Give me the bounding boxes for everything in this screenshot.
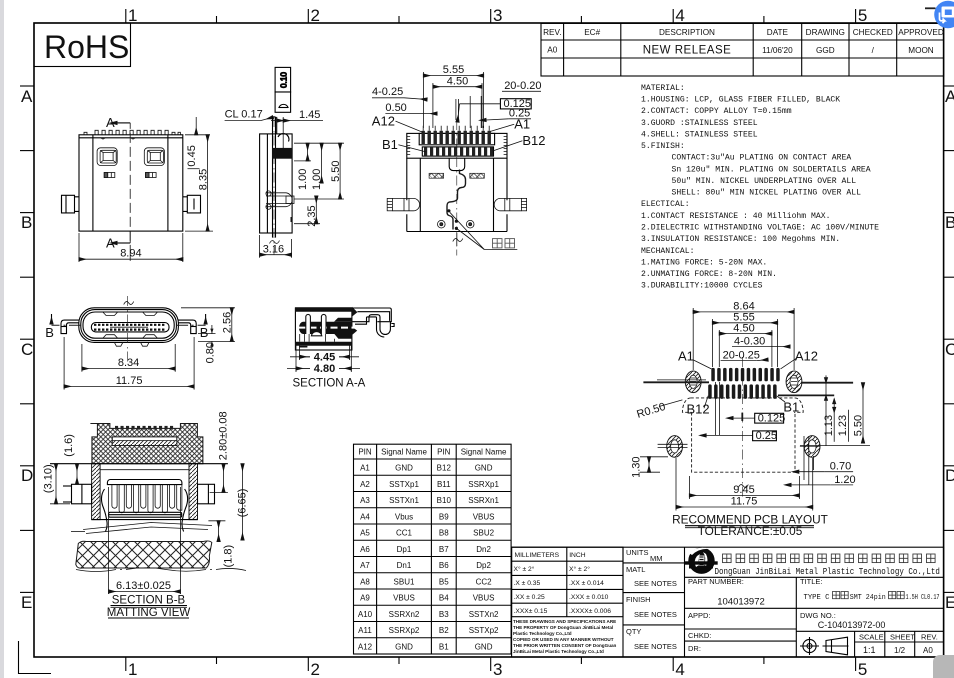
svg-text:3.DURABILITY:10000 CYCLES: 3.DURABILITY:10000 CYCLES: [641, 282, 763, 291]
svg-text:SBU2: SBU2: [473, 529, 494, 538]
left gray strip: [0, 0, 4, 678]
svg-text:3.16: 3.16: [263, 244, 284, 256]
svg-text:A6: A6: [360, 545, 370, 554]
dim 3.16: [260, 235, 292, 258]
svg-text:NEW RELEASE: NEW RELEASE: [643, 45, 732, 57]
top comb teeth row: [115, 426, 173, 430]
note 0.50: [385, 102, 437, 114]
svg-text:CC1: CC1: [396, 529, 413, 538]
svg-text:A5: A5: [360, 529, 370, 538]
svg-text:CL 0.17: CL 0.17: [225, 109, 263, 121]
rear view body outline: [79, 135, 183, 231]
svg-text:2.CONTACT: COPPY ALLOY T=0.15m: 2.CONTACT: COPPY ALLOY T=0.15mm: [641, 107, 792, 116]
svg-text:SBU1: SBU1: [394, 577, 415, 586]
dim 8.34: [82, 344, 175, 372]
zone numbers bottom: [128, 660, 867, 678]
svg-text:MECHANICAL:: MECHANICAL:: [641, 247, 694, 256]
svg-text:A10: A10: [358, 610, 373, 619]
svg-text:MM: MM: [650, 554, 663, 563]
svg-text:Dp1: Dp1: [397, 545, 412, 554]
svg-text:B1: B1: [783, 399, 799, 414]
svg-text:2.56: 2.56: [221, 312, 233, 333]
svg-text:TOLERANCE:±0.05: TOLERANCE:±0.05: [698, 524, 803, 538]
svg-text:MILLIMETERS: MILLIMETERS: [515, 552, 560, 559]
svg-text:1.HOUSING: LCP, GLASS FIBER FI: 1.HOUSING: LCP, GLASS FIBER FILLED, BLAC…: [641, 96, 840, 105]
dim 2.56: [181, 308, 235, 342]
svg-text:CHKD:: CHKD:: [688, 631, 711, 640]
svg-text:CC2: CC2: [476, 577, 493, 586]
svg-text:A7: A7: [360, 561, 370, 570]
pin table: [354, 444, 512, 654]
svg-text:DATE: DATE: [767, 28, 789, 37]
side view tolerance frame 0.10: [275, 67, 291, 112]
svg-text:4.45: 4.45: [314, 351, 335, 363]
svg-text:1.20: 1.20: [834, 474, 855, 486]
svg-text:.XXX ± 0.010: .XXX ± 0.010: [569, 594, 609, 601]
svg-text:1: 1: [128, 660, 137, 678]
svg-text:CHECKED: CHECKED: [853, 28, 893, 37]
svg-text:1.13: 1.13: [823, 415, 835, 436]
left outer tab: [63, 484, 92, 504]
dim 2.80+-0.08: [210, 411, 230, 492]
svg-text:PART NUMBER:: PART NUMBER:: [688, 577, 744, 586]
svg-text:DRAWING: DRAWING: [806, 28, 845, 37]
svg-text:.X ± 0.35: .X ± 0.35: [514, 580, 541, 587]
svg-text:B: B: [200, 325, 209, 340]
MATTING VIEW label: [107, 607, 191, 619]
svg-text:DR:: DR:: [688, 644, 701, 653]
svg-text:9.45: 9.45: [733, 484, 754, 496]
company name CJK (boxes): [723, 554, 936, 563]
svg-text:4-0.25: 4-0.25: [372, 86, 403, 98]
svg-text:5.50: 5.50: [853, 415, 865, 436]
labels B12 B1: [687, 399, 800, 416]
svg-text:4: 4: [675, 6, 684, 25]
lower oval pads: [667, 436, 820, 458]
svg-text:1.23: 1.23: [837, 415, 849, 436]
pin slots: [306, 314, 311, 334]
svg-text:SCALE: SCALE: [859, 633, 884, 642]
centerline symbol: [453, 239, 463, 242]
svg-text:THESE DRAWINGS AND SPECIFICATI: THESE DRAWINGS AND SPECIFICATIONS ARE: [513, 619, 616, 624]
svg-text:(6.65): (6.65): [237, 489, 249, 518]
svg-text:8.34: 8.34: [118, 357, 139, 369]
svg-text:GND: GND: [395, 464, 413, 473]
zone ticks bottom: [126, 657, 856, 671]
svg-text:QTY: QTY: [626, 627, 641, 636]
svg-text:2: 2: [311, 660, 320, 678]
svg-text:.XXX± 0.15: .XXX± 0.15: [514, 608, 548, 615]
gray corner square bottom-right: [933, 655, 954, 678]
svg-text:2.35: 2.35: [306, 205, 318, 226]
svg-text:8.35: 8.35: [198, 169, 210, 190]
svg-text:(1.6): (1.6): [63, 434, 75, 457]
dim (6.65): [237, 464, 249, 540]
heavy reference lines: [643, 382, 853, 395]
svg-text:A0: A0: [547, 46, 557, 55]
svg-text:2.UNMATING FORCE: 8-20N MIN.: 2.UNMATING FORCE: 8-20N MIN.: [641, 270, 777, 279]
svg-text:1: 1: [128, 6, 137, 25]
svg-text:SSTXn1: SSTXn1: [389, 496, 419, 505]
svg-text:50u" MIN. NICKEL UNDERPLATING: 50u" MIN. NICKEL UNDERPLATING OVER ALL: [672, 177, 857, 186]
svg-text:4.SHELL: STAINLESS STEEL: 4.SHELL: STAINLESS STEEL: [641, 130, 758, 139]
centerline symbol bottom: [270, 241, 280, 244]
svg-text:MATL: MATL: [626, 565, 645, 574]
svg-text:1:1: 1:1: [863, 645, 876, 655]
bottom hatched slab: [76, 541, 212, 568]
bottom-left corner trim mark: [19, 641, 52, 674]
label A12: [372, 114, 424, 133]
solder point label 焊点: [450, 212, 518, 249]
rear view small hatched slots: [104, 173, 156, 178]
svg-text:A12: A12: [358, 642, 373, 651]
top view left tab: [387, 198, 419, 210]
svg-text:PIN: PIN: [358, 448, 372, 457]
svg-text:0.80: 0.80: [205, 342, 217, 363]
svg-text:B12: B12: [437, 464, 452, 473]
svg-text:A11: A11: [358, 626, 372, 635]
svg-text:MATTING VIEW: MATTING VIEW: [107, 607, 191, 619]
dim 2.35: [294, 196, 320, 227]
third angle projection symbol: [800, 637, 849, 655]
svg-text:A0: A0: [923, 646, 933, 655]
side black flange: [272, 148, 292, 159]
svg-text:2: 2: [311, 6, 320, 25]
left leg: [61, 320, 79, 334]
top view body below flange: [407, 158, 507, 231]
TITLE content: [804, 592, 940, 603]
svg-text:B9: B9: [439, 512, 449, 521]
R0.50: [635, 400, 682, 421]
svg-text:SSRXn1: SSRXn1: [468, 496, 499, 505]
blue translate icon top-right: [934, 1, 954, 29]
svg-text:A12: A12: [372, 114, 395, 129]
svg-text:PIN: PIN: [437, 448, 451, 457]
svg-text:1/2: 1/2: [894, 646, 906, 655]
svg-text:VBUS: VBUS: [473, 512, 495, 521]
svg-text:D: D: [945, 466, 954, 485]
svg-text:X° ± 2°: X° ± 2°: [569, 565, 590, 573]
pcb thin band wavy: [71, 523, 212, 534]
svg-text:DongGuan JinBiLai Metal Plasti: DongGuan JinBiLai Metal Plastic Technolo…: [715, 567, 940, 577]
dim 4.45: [290, 343, 359, 363]
svg-text:C: C: [21, 340, 33, 359]
svg-text:REV.: REV.: [543, 28, 561, 37]
section A arrow bottom: [106, 231, 130, 250]
svg-text:SSTXp1: SSTXp1: [389, 480, 419, 489]
right leg: [178, 320, 196, 334]
dim 5.55: [712, 312, 777, 368]
note 4-0.30: [732, 336, 790, 348]
dims 1.13 1.23 5.50 right: [800, 375, 870, 445]
svg-text:3: 3: [493, 6, 502, 25]
label A1: [491, 117, 531, 132]
svg-text:5: 5: [858, 6, 867, 25]
svg-text:SSTXp2: SSTXp2: [469, 626, 499, 635]
centerline vertical: [741, 357, 743, 497]
svg-text:11/06'20: 11/06'20: [762, 46, 793, 55]
svg-text:5: 5: [858, 660, 867, 678]
svg-text:B1: B1: [439, 642, 449, 651]
svg-text:.XXXX± 0.006: .XXXX± 0.006: [569, 608, 611, 615]
dim 4.50 (top view): [433, 76, 482, 129]
svg-text:SHELL: 80u" MIN NICKEL PLATING: SHELL: 80u" MIN NICKEL PLATING OVER ALL: [672, 189, 862, 198]
zone letters right: [944, 86, 954, 592]
white semicircle: [311, 332, 321, 336]
svg-text:A2: A2: [360, 480, 370, 489]
svg-text:Dn1: Dn1: [397, 561, 412, 570]
pin row B (12 pins): [424, 148, 493, 157]
svg-text:B12: B12: [687, 401, 710, 416]
svg-text:B: B: [945, 213, 954, 232]
svg-text:2.80±0.08: 2.80±0.08: [218, 411, 230, 460]
svg-text:(3.10): (3.10): [43, 464, 55, 493]
contact assembly top bar: [107, 480, 182, 485]
pad row B: [708, 384, 776, 399]
svg-text:0.25: 0.25: [509, 107, 530, 119]
side latch bump circle: [278, 134, 289, 142]
svg-text:104013972: 104013972: [717, 597, 765, 608]
svg-text:VBUS: VBUS: [473, 594, 495, 603]
slab bottom wavy dashdot: [76, 568, 246, 572]
svg-text:B1: B1: [382, 137, 398, 152]
svg-text:A: A: [106, 236, 115, 251]
white dashed centerline through band: [299, 327, 359, 329]
svg-text:B8: B8: [439, 529, 449, 538]
B-B cut line: [52, 324, 206, 326]
svg-text:GND: GND: [475, 642, 493, 651]
long ext lines 6.13: [108, 487, 110, 594]
svg-text:SEE NOTES: SEE NOTES: [634, 579, 677, 588]
lower comb hatch strip: [112, 441, 177, 446]
dim 6.13+-0.025: [109, 580, 181, 592]
svg-text:4-0.30: 4-0.30: [734, 336, 765, 348]
svg-text:APPD:: APPD:: [688, 611, 711, 620]
board outline dashed: [682, 398, 803, 472]
svg-text:0.50: 0.50: [385, 102, 406, 114]
svg-text:4.50: 4.50: [733, 322, 754, 334]
svg-text:20-0.20: 20-0.20: [504, 80, 541, 92]
svg-text:Signal Name: Signal Name: [381, 448, 427, 457]
svg-text:A3: A3: [360, 496, 370, 505]
top view right tab: [494, 198, 526, 210]
lower verticals: [300, 334, 335, 342]
svg-text:A1: A1: [360, 464, 370, 473]
svg-text:REV.: REV.: [921, 633, 938, 642]
svg-text:0.125: 0.125: [758, 412, 786, 424]
svg-text:Sn 120u" MIN. PLATING ON SOLDE: Sn 120u" MIN. PLATING ON SOLDERTAILS ARE…: [672, 165, 871, 174]
svg-text:C: C: [945, 340, 954, 359]
dim 4.50: [719, 322, 772, 367]
note 20-0.25: [721, 350, 768, 362]
svg-text:SMT 24pin: SMT 24pin: [850, 594, 886, 602]
side spring hooks: [101, 489, 107, 532]
rear view left tab: [62, 195, 80, 213]
svg-text:SHEET: SHEET: [890, 633, 915, 642]
svg-text:MATERIAL:: MATERIAL:: [641, 84, 685, 93]
svg-text:B4: B4: [439, 594, 449, 603]
svg-text:4: 4: [675, 660, 684, 678]
svg-text:20-0.25: 20-0.25: [723, 350, 760, 362]
svg-text:B12: B12: [522, 133, 545, 148]
svg-text:DWG NO.:: DWG NO.:: [800, 611, 836, 620]
svg-text:SEE NOTES: SEE NOTES: [634, 610, 677, 619]
svg-text:1.00: 1.00: [311, 169, 323, 190]
labels A1 A12: [678, 349, 818, 364]
assembly bottom bar: [109, 512, 182, 517]
svg-text:C-104013972-00: C-104013972-00: [818, 620, 886, 630]
svg-text:SEE NOTES: SEE NOTES: [634, 642, 677, 651]
dim 11.75: [676, 458, 813, 511]
svg-text:1.30: 1.30: [630, 456, 642, 477]
solder tail wiggle: [447, 170, 466, 230]
svg-text:11.75: 11.75: [731, 495, 758, 507]
top latch bumps: [103, 312, 157, 338]
tongue: [91, 323, 169, 332]
title block: [512, 547, 944, 657]
note 20-0.20: [502, 80, 542, 92]
svg-text:INCH: INCH: [569, 552, 586, 559]
centerline vertical: [127, 296, 129, 362]
rivet circles: [438, 220, 475, 228]
svg-text:1.5H CL0.17: 1.5H CL0.17: [906, 594, 940, 602]
svg-text:Dn2: Dn2: [476, 545, 491, 554]
dim 0.80: [198, 325, 217, 363]
top view center notch: [449, 158, 465, 170]
dim 5.50: [294, 143, 344, 199]
top view flange: [407, 133, 507, 158]
dim (3.10): [43, 464, 71, 504]
svg-text:A: A: [945, 87, 954, 106]
label B12: [493, 133, 546, 151]
svg-text:A9: A9: [360, 594, 370, 603]
svg-text:0.25: 0.25: [756, 430, 777, 442]
rear view latch window left: [97, 148, 117, 166]
CL 0.17 note: [225, 109, 273, 121]
rear view top comb teeth: [84, 130, 180, 139]
note 0.25: [486, 107, 531, 120]
right outer tab: [198, 484, 215, 504]
svg-text:TYPE C: TYPE C: [804, 594, 830, 602]
dim 1.30: [630, 456, 668, 477]
svg-text:EC#: EC#: [584, 28, 600, 37]
dim 8.94: [79, 233, 183, 262]
svg-text:RoHS: RoHS: [44, 29, 129, 65]
svg-text:SSRXp2: SSRXp2: [389, 626, 420, 635]
svg-text:Dp2: Dp2: [476, 561, 491, 570]
top view hatched slots: [429, 173, 444, 178]
svg-text:A1: A1: [678, 349, 694, 364]
rear view latch window right: [144, 148, 164, 166]
svg-text:B: B: [45, 325, 54, 340]
svg-text:THE PROPERTY OF DongGuan JinBi: THE PROPERTY OF DongGuan JinBiLai Metal: [513, 625, 613, 630]
svg-text:Signal Name: Signal Name: [461, 448, 507, 457]
svg-text:0.70: 0.70: [830, 461, 851, 473]
svg-text:A12: A12: [795, 349, 818, 364]
svg-text:0.10: 0.10: [280, 72, 289, 88]
zone letters left: [20, 86, 34, 592]
svg-text:B10: B10: [437, 496, 452, 505]
upper oval pads: [685, 371, 802, 393]
svg-text:GND: GND: [395, 642, 413, 651]
top view centerline: [456, 120, 458, 256]
side view body: [260, 117, 293, 238]
svg-text:MOON: MOON: [908, 46, 934, 55]
svg-text:THE PRIOR WRITTEN CONSENT OF D: THE PRIOR WRITTEN CONSENT OF DongGuan: [513, 643, 617, 648]
svg-text:3.GUORD :STAINLESS STEEL: 3.GUORD :STAINLESS STEEL: [641, 119, 758, 128]
svg-text:UNITS: UNITS: [626, 548, 649, 557]
svg-text:3.INSULATION RESISTANCE: 100 M: 3.INSULATION RESISTANCE: 100 Megohms MIN…: [641, 235, 840, 244]
svg-text:(1.8): (1.8): [223, 545, 235, 568]
dim 1.20: [791, 474, 856, 486]
svg-text:B7: B7: [439, 545, 449, 554]
top hatched shell block: [90, 424, 202, 464]
flange side serrations: [407, 137, 507, 155]
svg-text:B3: B3: [439, 610, 449, 619]
pad row A: [711, 368, 779, 381]
dim 11.75: [64, 337, 194, 390]
svg-text:COPIED OR USED IN ANY MANNER W: COPIED OR USED IN ANY MANNER WITHOUT: [513, 637, 614, 642]
svg-text:APPROVED: APPROVED: [898, 28, 944, 37]
side centerline: [273, 117, 275, 255]
section A arrow top: [106, 115, 130, 130]
top black bar: [295, 307, 352, 312]
svg-text:FINISH: FINISH: [626, 595, 651, 604]
svg-text:SSTXn2: SSTXn2: [469, 610, 499, 619]
ext lines right pins: [456, 96, 481, 128]
right hook: [352, 308, 394, 337]
label B1: [382, 137, 426, 152]
minus mark near icon: [925, 7, 936, 9]
svg-text:X° ± 2°: X° ± 2°: [514, 565, 535, 573]
svg-text:0.45: 0.45: [186, 145, 198, 166]
svg-text:A4: A4: [360, 512, 370, 521]
svg-text:8.94: 8.94: [120, 247, 141, 259]
dim 0.45: [185, 117, 210, 169]
svg-text:SECTION B-B: SECTION B-B: [112, 594, 186, 606]
RoHS box: [34, 23, 131, 67]
svg-text:B5: B5: [439, 577, 449, 586]
svg-text:D: D: [21, 466, 33, 485]
bottom bumps below oval: [114, 342, 149, 346]
svg-text:1.CONTACT RESISTANCE : 40 Mill: 1.CONTACT RESISTANCE : 40 Milliohm MAX.: [641, 212, 830, 221]
svg-text:E: E: [21, 593, 32, 612]
side bottom legs: [266, 191, 294, 209]
svg-text:1.MATING FORCE: 5-20N MAX.: 1.MATING FORCE: 5-20N MAX.: [641, 258, 767, 267]
body bottom lines: [92, 519, 198, 521]
svg-text:Plastic Technology Co.,Ltd: Plastic Technology Co.,Ltd: [513, 631, 572, 636]
svg-text:11.75: 11.75: [116, 375, 143, 387]
zone numbers top: [128, 6, 867, 25]
dim (1.6): [63, 434, 77, 484]
svg-text:VBUS: VBUS: [393, 594, 415, 603]
svg-text:.XX ± 0.014: .XX ± 0.014: [569, 580, 604, 587]
black middle band: [299, 322, 352, 334]
svg-text:SSRXp1: SSRXp1: [468, 480, 499, 489]
0.25 box: [706, 430, 777, 442]
dim 0.70: [799, 461, 853, 473]
svg-text:TITLE:: TITLE:: [800, 577, 823, 586]
svg-text:Vbus: Vbus: [395, 512, 413, 521]
svg-text:E: E: [945, 593, 954, 612]
company logo JBL: [685, 548, 718, 577]
svg-text:4.80: 4.80: [314, 363, 335, 375]
dim 1.45: [271, 109, 323, 150]
svg-text:B2: B2: [439, 626, 449, 635]
svg-text:SSRXn2: SSRXn2: [389, 610, 420, 619]
svg-text:ELECTICAL:: ELECTICAL:: [641, 200, 690, 209]
dim (1.8): [208, 521, 234, 568]
